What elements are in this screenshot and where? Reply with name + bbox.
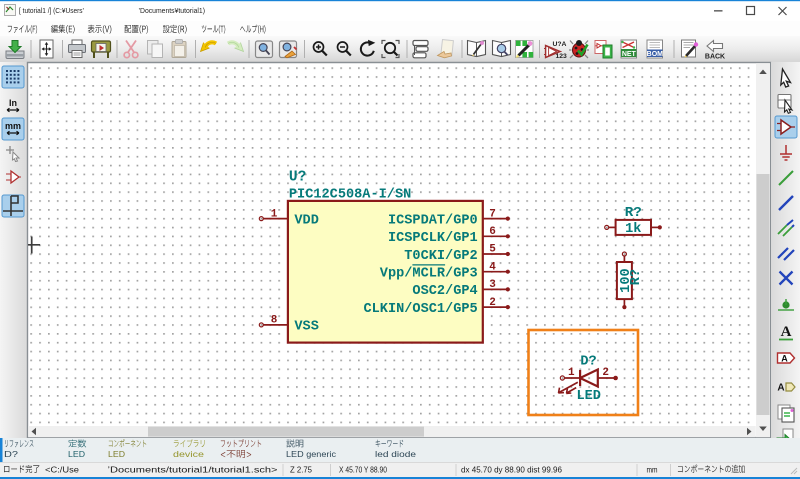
- resize grip: [791, 468, 797, 474]
- right tool: place power port: [780, 145, 792, 160]
- right tool: place bus: [779, 196, 793, 210]
- right tool: wire to bus entry: [778, 220, 794, 236]
- pin 1 VDD (left): [259, 208, 319, 228]
- left tool: hidden pins: [6, 171, 21, 183]
- svg-text:<C:/Use: <C:/Use: [45, 464, 79, 474]
- right tool: import sheet pin: [778, 405, 794, 422]
- horizontal scrollbar right arrow: [747, 428, 752, 435]
- toolbar icon: bill of materials: [647, 40, 664, 58]
- main toolbar background: [0, 36, 800, 62]
- toolbar icon: edit footprint fields: [682, 40, 699, 57]
- svg-text:mm: mm: [5, 121, 21, 131]
- LED emission arrows: [558, 382, 578, 393]
- toolbar icon: library editor: [468, 41, 486, 57]
- pin 7 ICSPDAT/GP0 (right): [388, 208, 510, 228]
- svg-text:NET: NET: [622, 51, 637, 58]
- toolbar icon: print: [69, 40, 86, 58]
- right tool: place sheet: [777, 429, 793, 446]
- svg-text:LED: LED: [108, 449, 125, 459]
- left tool: units inches: [7, 98, 19, 112]
- svg-text:U?: U?: [289, 170, 306, 186]
- toolbar icon: page settings: [40, 40, 53, 58]
- status: load complete: [4, 465, 39, 473]
- svg-text:R?: R?: [625, 205, 642, 221]
- svg-text:A: A: [781, 324, 792, 340]
- pin 6 ICSPCLK/GP1 (right): [388, 226, 510, 246]
- toolbar icon: footprint editor: [516, 41, 534, 58]
- svg-text:LED: LED: [576, 389, 600, 404]
- vertical scrollbar track: [756, 63, 770, 437]
- menu item ツール(T): [202, 25, 225, 34]
- svg-text:BACK: BACK: [705, 54, 725, 61]
- svg-text:OSC2/GP4: OSC2/GP4: [412, 284, 477, 299]
- resistor R? (100), vertical: [617, 252, 632, 309]
- svg-text:In: In: [9, 98, 17, 108]
- left tool: cursor shape: [6, 146, 19, 162]
- svg-text:Vpp/MCLR/GP3: Vpp/MCLR/GP3: [380, 267, 478, 282]
- svg-text:2: 2: [489, 297, 496, 309]
- minimize button: [714, 10, 723, 11]
- info label description: [286, 439, 303, 447]
- pin 5 T0CKI/GP2 (right): [404, 244, 510, 264]
- pin 2 CLKIN/OSC1/GP5 (right): [363, 297, 509, 317]
- svg-text:Z 2.75: Z 2.75: [290, 464, 312, 474]
- right toolbar background: [771, 62, 800, 438]
- svg-text:7: 7: [489, 208, 496, 220]
- right tool: place global label: [778, 353, 795, 364]
- canvas crosshair cursor: [28, 237, 40, 254]
- menu item 配置(P): [125, 25, 149, 34]
- info label keywords: [376, 440, 404, 448]
- toolbar icon: annotate: [544, 41, 567, 60]
- svg-text:CLKIN/OSC1/GP5: CLKIN/OSC1/GP5: [363, 302, 477, 317]
- svg-text:2: 2: [602, 367, 609, 379]
- toolbar icon: copy (disabled): [148, 41, 163, 58]
- right tool: highlight net: [778, 95, 792, 114]
- toolbar separators: [30, 40, 32, 58]
- vertical scrollbar thumb: [757, 174, 770, 415]
- info panel background: [0, 438, 800, 462]
- status: add component: [678, 465, 745, 473]
- canvas dot grid: [28, 63, 755, 425]
- toolbar icon: leave sheet (disabled): [438, 40, 454, 58]
- svg-text:6: 6: [489, 226, 496, 238]
- menubar background: [0, 21, 800, 36]
- pin 4 Vpp/MCLR/GP3 (right): [380, 261, 510, 281]
- svg-text:3: 3: [489, 279, 496, 291]
- svg-text:8: 8: [271, 315, 278, 327]
- toolbar icon: library browser: [493, 41, 511, 57]
- toolbar icon: redraw view: [361, 40, 375, 56]
- window bottom border (blue): [0, 477, 800, 479]
- right tool: place hierarchical label: [777, 383, 795, 394]
- svg-text:1: 1: [568, 367, 575, 379]
- toolbar icon: find and replace: [280, 41, 297, 58]
- horizontal scrollbar left arrow: [32, 428, 37, 435]
- right tool: place wire: [779, 171, 793, 185]
- toolbar icon: save: [6, 41, 24, 59]
- svg-text:’Documents¥tutorial1): ’Documents¥tutorial1): [139, 6, 206, 15]
- toolbar icon: redo (disabled): [228, 42, 244, 51]
- LED D?, diode symbol with pins 1 and 2: [560, 370, 618, 387]
- canvas border: [28, 63, 771, 438]
- svg-text:VDD: VDD: [294, 213, 318, 228]
- toolbar icon: ERC check: [569, 40, 589, 58]
- svg-text:VSS: VSS: [294, 320, 318, 335]
- svg-text:D?: D?: [580, 355, 596, 370]
- titlebar app icon (eeschema): [5, 5, 16, 16]
- toolbar icon: zoom out: [338, 42, 351, 56]
- toolbar icon: paste (disabled): [172, 40, 186, 58]
- right tool: place net label: [779, 324, 793, 340]
- svg-text:1: 1: [271, 208, 278, 220]
- info label footprint: [221, 439, 261, 447]
- resistor R? (1k), horizontal: [605, 220, 662, 235]
- horizontal scrollbar track: [28, 426, 756, 437]
- svg-text:mm: mm: [647, 464, 658, 474]
- info value footprint: [221, 450, 251, 458]
- svg-text:A: A: [781, 354, 788, 364]
- window top border (blue): [0, 0, 800, 1]
- menu item 表示(V): [88, 25, 112, 34]
- svg-text:1k: 1k: [625, 222, 641, 237]
- horizontal scrollbar thumb: [148, 427, 424, 437]
- svg-text:4: 4: [489, 261, 496, 273]
- menu item ファイル(F): [8, 25, 37, 34]
- close button: [779, 7, 787, 15]
- pin 8 VSS (left): [259, 315, 319, 335]
- svg-text:ICSPCLK/GP1: ICSPCLK/GP1: [388, 231, 478, 246]
- vertical scrollbar down arrow: [759, 427, 767, 432]
- orange selection frame around LED: [529, 330, 639, 415]
- left tool: units millimetres (selected): [2, 118, 24, 140]
- info label library: [174, 439, 205, 447]
- svg-text:R?: R?: [629, 269, 644, 285]
- maximize button: [747, 7, 755, 15]
- menu item 設定(R): [163, 25, 187, 34]
- svg-text:’Documents/tutorial1/tutorial1: ’Documents/tutorial1/tutorial1.sch>: [108, 464, 278, 474]
- svg-text:X 45.70 Y 88.90: X 45.70 Y 88.90: [339, 464, 387, 474]
- IC U? PIC12C508A body: [288, 201, 483, 343]
- svg-text:U?A: U?A: [553, 41, 567, 48]
- toolbar icon: assign footprints (CvPcb): [595, 41, 612, 59]
- svg-text:led diode: led diode: [375, 449, 416, 459]
- right tool: place component (selected): [775, 116, 797, 138]
- svg-text:D?: D?: [4, 449, 18, 459]
- svg-text:ICSPDAT/GP0: ICSPDAT/GP0: [388, 213, 478, 228]
- toolbar icon: zoom to fit: [382, 41, 399, 58]
- toolbar icon: navigate hierarchy: [413, 41, 428, 58]
- left toolbar background: [0, 62, 27, 438]
- pin 3 OSC2/GP4 (right): [412, 279, 509, 299]
- info label reference: [5, 440, 33, 447]
- toolbar icon: back-annotate: [705, 41, 725, 61]
- info label value: [69, 439, 87, 447]
- canvas background: [28, 63, 755, 425]
- right tool: cursor: [781, 69, 791, 87]
- svg-text:T0CKI/GP2: T0CKI/GP2: [404, 249, 477, 264]
- svg-text:[ tutorial1 /] (C:¥Users’: [ tutorial1 /] (C:¥Users’: [19, 6, 84, 15]
- svg-text:A: A: [777, 383, 784, 394]
- svg-text:LED generic: LED generic: [286, 449, 337, 459]
- menu item ヘルプ(H): [240, 25, 265, 34]
- left tool: HV wire orientation (selected): [2, 195, 24, 217]
- vertical scrollbar up arrow: [759, 70, 767, 75]
- status bar background: [0, 462, 800, 477]
- svg-text:LED: LED: [68, 449, 85, 459]
- right tool: no connect flag: [780, 272, 793, 285]
- menu item 編集(E): [51, 25, 75, 34]
- toolbar icon: cut (disabled): [124, 41, 138, 58]
- info label component: [109, 439, 146, 447]
- svg-text:BOM: BOM: [647, 51, 664, 58]
- right tool: place junction: [778, 299, 794, 310]
- svg-text:5: 5: [489, 244, 496, 256]
- svg-text:PIC12C508A-I/SN: PIC12C508A-I/SN: [289, 188, 411, 203]
- svg-text:device: device: [173, 449, 204, 459]
- left tool: grid visibility (selected): [2, 66, 24, 88]
- toolbar icon: find: [256, 41, 273, 58]
- right tool: bus to bus entry: [778, 248, 794, 260]
- toolbar icon: plot: [92, 41, 111, 58]
- toolbar icon: undo: [201, 42, 217, 51]
- svg-text:dx 45.70 dy 88.90 dist 99.96: dx 45.70 dy 88.90 dist 99.96: [461, 464, 562, 474]
- toolbar icon: generate netlist: [621, 40, 637, 58]
- toolbar icon: zoom in: [314, 42, 327, 56]
- svg-text:123: 123: [556, 53, 568, 60]
